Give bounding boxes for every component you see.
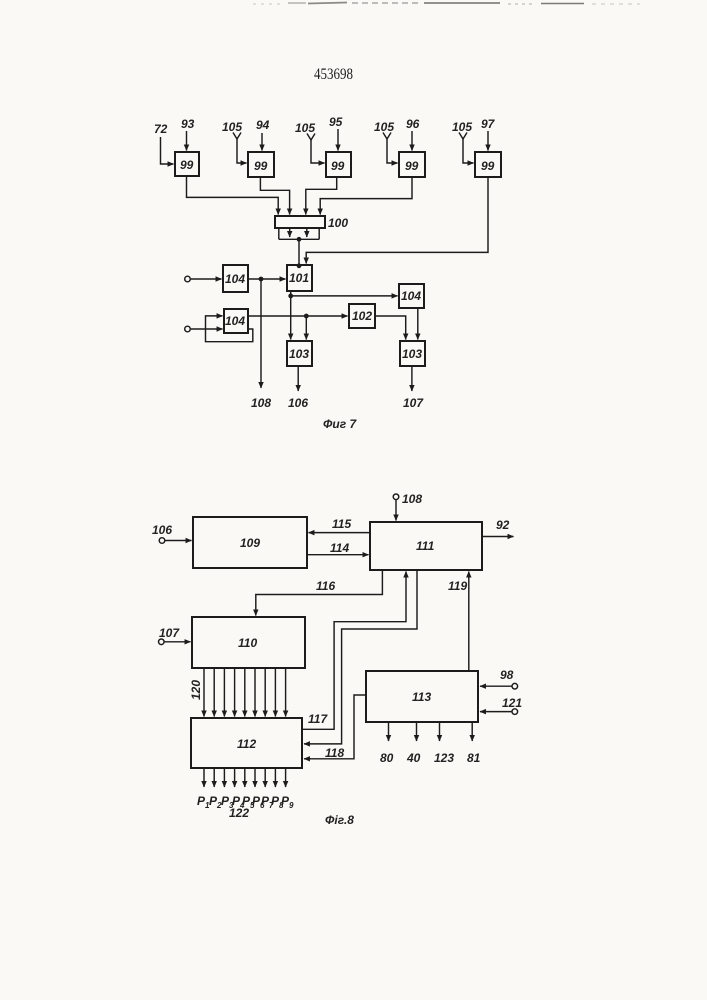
svg-text:108: 108	[251, 396, 271, 410]
svg-text:120: 120	[189, 680, 203, 700]
svg-text:102: 102	[352, 309, 372, 323]
svg-text:98: 98	[500, 668, 514, 682]
svg-text:94: 94	[256, 118, 270, 132]
svg-text:93: 93	[181, 117, 195, 131]
svg-text:97: 97	[481, 117, 496, 131]
svg-text:Фиг 7: Фиг 7	[323, 417, 357, 431]
svg-text:109: 109	[240, 536, 260, 550]
svg-text:P9: P9	[281, 794, 294, 810]
svg-text:104: 104	[225, 314, 245, 328]
svg-text:99: 99	[254, 159, 268, 173]
svg-text:123: 123	[434, 751, 454, 765]
svg-text:95: 95	[329, 115, 343, 129]
svg-text:104: 104	[401, 289, 421, 303]
svg-text:99: 99	[481, 159, 495, 173]
svg-text:117: 117	[308, 712, 328, 726]
svg-text:121: 121	[502, 696, 522, 710]
svg-text:114: 114	[330, 541, 349, 555]
svg-text:115: 115	[332, 517, 351, 531]
svg-text:105: 105	[295, 121, 315, 135]
svg-text:107: 107	[159, 626, 180, 640]
svg-text:Фіг.8: Фіг.8	[325, 813, 354, 827]
svg-text:110: 110	[238, 636, 257, 650]
svg-text:111: 111	[416, 539, 435, 553]
svg-text:81: 81	[467, 751, 481, 765]
svg-text:104: 104	[225, 272, 245, 286]
svg-text:107: 107	[403, 396, 424, 410]
svg-text:105: 105	[222, 120, 242, 134]
svg-text:105: 105	[452, 120, 472, 134]
svg-text:106: 106	[288, 396, 308, 410]
svg-text:112: 112	[237, 737, 256, 751]
svg-text:122: 122	[229, 806, 249, 820]
svg-text:101: 101	[289, 271, 309, 285]
svg-text:108: 108	[402, 492, 422, 506]
svg-text:92: 92	[496, 518, 510, 532]
svg-text:106: 106	[152, 523, 172, 537]
svg-text:99: 99	[180, 158, 194, 172]
svg-text:99: 99	[331, 159, 345, 173]
svg-text:100: 100	[328, 216, 348, 230]
svg-text:96: 96	[406, 117, 420, 131]
svg-text:113: 113	[412, 690, 431, 704]
svg-text:105: 105	[374, 120, 394, 134]
svg-text:453698: 453698	[314, 66, 353, 83]
svg-text:80: 80	[380, 751, 394, 765]
svg-text:119: 119	[448, 579, 467, 593]
svg-text:103: 103	[402, 347, 422, 361]
svg-text:72: 72	[154, 122, 168, 136]
svg-text:40: 40	[406, 751, 421, 765]
svg-text:99: 99	[405, 159, 419, 173]
svg-text:116: 116	[316, 579, 335, 593]
svg-text:118: 118	[325, 746, 344, 760]
svg-text:103: 103	[289, 347, 309, 361]
